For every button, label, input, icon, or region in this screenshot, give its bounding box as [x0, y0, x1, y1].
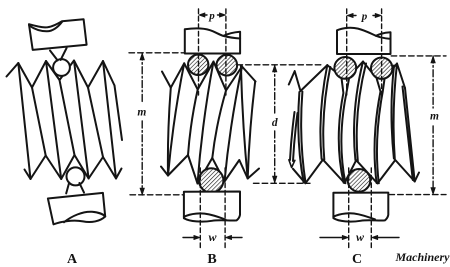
thread flank line	[225, 67, 243, 182]
thread flank line	[46, 61, 61, 179]
d arrow down	[272, 176, 277, 183]
measuring wire ball B1 (hatched)	[188, 55, 208, 75]
m dimension line	[141, 53, 143, 103]
anvil A bottom fold line	[64, 212, 105, 222]
measuring wire ball C3 bottom (hatched)	[348, 169, 371, 192]
anvil B top fold line	[223, 36, 240, 39]
thread flank line	[168, 88, 171, 176]
thread flank line	[198, 62, 214, 184]
svg-text:w: w	[208, 230, 217, 244]
thread A long flank lines	[18, 61, 122, 180]
m bottom extension dashes	[130, 194, 184, 196]
thread C top crest zigzag	[289, 62, 405, 92]
m arrow up	[140, 53, 145, 60]
anvil C top fold line	[376, 36, 391, 39]
measuring wire ball B2 (hatched)	[217, 55, 238, 76]
anvil B bottom	[184, 192, 240, 222]
thread flank line	[18, 63, 30, 179]
thread B top crest zigzag	[162, 62, 256, 91]
svg-text:m: m	[137, 107, 146, 119]
spindle cone A top	[50, 48, 67, 60]
truncated tooth pair with arrow tip	[290, 112, 298, 161]
anvil A bottom	[48, 193, 105, 224]
svg-text:d: d	[272, 117, 278, 129]
thread flank line	[103, 61, 116, 179]
m dimension line	[432, 56, 434, 108]
anvil A top fold line	[29, 22, 62, 32]
svg-text:w: w	[356, 230, 365, 244]
measuring wire ball C1 (hatched)	[334, 57, 356, 79]
thread B long flank lines	[168, 62, 255, 184]
m arrow down	[140, 188, 145, 195]
spindle cone A bottom	[66, 183, 84, 194]
anvil C bottom fold line	[333, 213, 375, 219]
p arrows B	[199, 13, 206, 17]
groove root pair under ball C2	[375, 76, 385, 184]
svg-text:m: m	[430, 111, 439, 123]
thread flank line	[60, 80, 75, 155]
ball A bottom (plain)	[67, 167, 85, 185]
p arrows C	[347, 13, 354, 17]
m bottom extension dashes	[389, 194, 446, 196]
thread flank line	[32, 88, 46, 156]
thread flank line	[115, 86, 123, 141]
m arrow up C	[431, 56, 436, 63]
thread flank line	[248, 81, 256, 178]
anvil B bottom fold line	[184, 213, 226, 219]
w extension dashed lines C	[349, 168, 372, 250]
groove root pair under ball C1	[339, 76, 350, 183]
svg-text:p: p	[361, 10, 368, 22]
tooth pair	[391, 64, 397, 160]
thread flank line	[74, 61, 89, 179]
tooth pair	[354, 62, 366, 162]
thread flank line	[212, 91, 226, 158]
thread C bottom crest zigzag	[293, 160, 419, 184]
svg-text:C: C	[352, 252, 362, 267]
d top extension dashes	[237, 64, 322, 66]
measuring wire ball C2 (hatched)	[371, 57, 392, 78]
thread A bottom crest zigzag	[25, 155, 122, 179]
right edge pair	[403, 87, 415, 182]
m top extension dashes	[391, 55, 446, 57]
thread flank line	[88, 88, 103, 158]
measuring wire ball B3 bottom (hatched)	[199, 168, 223, 192]
p extension dashed lines B	[199, 9, 226, 95]
m top extension dashes	[129, 52, 185, 54]
anvil A top	[29, 19, 87, 50]
svg-text:Machinery: Machinery	[395, 250, 450, 264]
thread flank line	[188, 90, 198, 156]
anvil C bottom	[333, 193, 388, 222]
thread A top crest zigzag	[7, 61, 115, 88]
ball A top (plain)	[53, 59, 70, 76]
d arrow up	[272, 65, 277, 72]
svg-text:B: B	[207, 252, 216, 267]
anvil B top	[185, 28, 240, 53]
d bottom extension dashes	[254, 182, 311, 184]
thread flank line	[241, 66, 248, 179]
svg-text:A: A	[67, 252, 78, 267]
thread flank line	[168, 63, 184, 175]
svg-text:p: p	[208, 10, 215, 22]
p extension dashed lines C	[347, 9, 382, 95]
thread B bottom crest zigzag	[161, 155, 259, 184]
m arrow down C	[431, 188, 436, 195]
d dimension line	[274, 65, 276, 113]
tooth pair	[320, 65, 330, 160]
w extension dashed lines B	[200, 168, 225, 250]
w arrows B	[183, 237, 195, 239]
w arrows C	[320, 237, 343, 239]
thread C flank lines	[289, 62, 415, 184]
groove root pair below first valley	[298, 92, 305, 184]
anvil C top	[337, 28, 391, 54]
